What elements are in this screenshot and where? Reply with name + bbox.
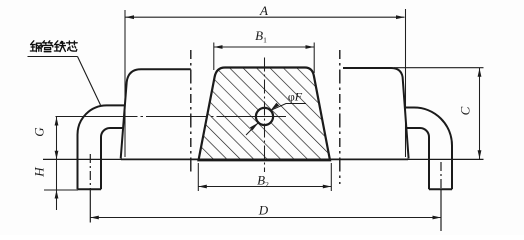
break line left (dash-dot) bbox=[190, 50, 192, 173]
left pipe centerline bbox=[89, 154, 91, 189]
dim B2 arrow left bbox=[198, 185, 207, 189]
dim D arrow right bbox=[433, 216, 442, 220]
dim A line bbox=[126, 16, 405, 18]
char 管 bbox=[43, 41, 53, 44]
dia F leader lower-left segment bbox=[246, 123, 258, 135]
svg-text:B2: B2 bbox=[257, 173, 269, 190]
dim G arrow top bbox=[55, 117, 59, 126]
left pipe elbow inner wall bbox=[101, 128, 124, 189]
dim H bottom extension line bbox=[44, 189, 78, 191]
dim B1 line bbox=[214, 46, 314, 48]
svg-text:φF: φF bbox=[288, 90, 303, 104]
dia F leader lower-left arrow bbox=[250, 123, 259, 131]
dim A arrow right bbox=[396, 15, 405, 19]
right hump outline bbox=[343, 68, 409, 159]
dim B2 extension lines bbox=[197, 163, 199, 191]
dim A extension line left bbox=[124, 10, 126, 157]
svg-text:G: G bbox=[32, 127, 47, 137]
dim B1 arrow right bbox=[306, 45, 315, 49]
dim C line bbox=[479, 68, 481, 159]
dia F leader upper-right segment bbox=[271, 104, 306, 111]
label steel-pipe-core text 钢管铁芯 (hand-drawn strokes) bbox=[30, 41, 77, 52]
left pipe elbow outer wall bbox=[78, 105, 125, 189]
dim D line bbox=[90, 217, 441, 219]
label underline bbox=[28, 56, 78, 58]
pipe axis horizontal centerline bbox=[56, 116, 287, 118]
dim C arrow top bbox=[478, 68, 482, 77]
char 芯 bbox=[67, 41, 78, 45]
dim G arrow bottom / H outside top bbox=[55, 151, 59, 160]
right pipe elbow inner wall bbox=[407, 128, 429, 189]
dim H outside bottom arrow bbox=[55, 190, 59, 199]
leader line to pipe bbox=[78, 57, 101, 106]
dim B1 arrow left bbox=[214, 45, 223, 49]
right pipe bottom end bbox=[429, 188, 452, 190]
dim B2 line bbox=[198, 186, 331, 188]
left pipe bottom end bbox=[78, 188, 102, 190]
center section block (hatched trapezoid) bbox=[199, 68, 331, 161]
svg-text:A: A bbox=[259, 3, 268, 18]
dia F leader upper-right arrow bbox=[271, 103, 280, 111]
svg-text:D: D bbox=[258, 203, 269, 218]
hole for pipe (circle) bbox=[256, 108, 273, 125]
dim A extension line right bbox=[405, 9, 407, 157]
hole vertical centerline bbox=[264, 58, 266, 173]
dim C arrow bottom bbox=[478, 150, 482, 159]
char 钢 bbox=[30, 41, 35, 51]
svg-text:H: H bbox=[32, 167, 47, 178]
dim B2 arrow right bbox=[323, 185, 332, 189]
left hump outline bbox=[121, 69, 191, 158]
dim D arrow left bbox=[90, 216, 99, 220]
break line right (dash-dot) bbox=[339, 50, 341, 184]
svg-text:C: C bbox=[458, 106, 473, 115]
dim A arrow left bbox=[126, 15, 135, 19]
right pipe centerline bbox=[440, 162, 442, 189]
char 铁 bbox=[54, 41, 59, 51]
right pipe elbow outer wall bbox=[405, 108, 452, 190]
dim B1 extension lines bbox=[213, 43, 215, 71]
base line of body bbox=[43, 158, 484, 160]
svg-text:B1: B1 bbox=[255, 28, 267, 45]
dim G/H vertical line bbox=[56, 117, 58, 210]
dim C top extension line bbox=[394, 67, 484, 69]
